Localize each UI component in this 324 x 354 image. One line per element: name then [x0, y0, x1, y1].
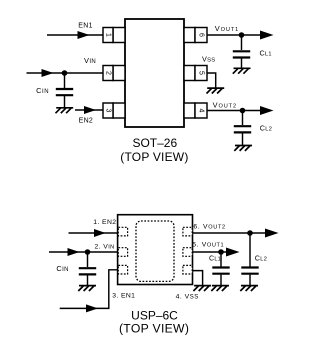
- wire CL2 to ground: [242, 133, 244, 145]
- node VOUT2 junction (USP): [247, 230, 253, 236]
- svg-text:EN2: EN2: [79, 118, 94, 125]
- node VOUT2 junction: [240, 108, 246, 114]
- pad pin 6: [183, 227, 192, 236]
- arrow EN1 pin3: [86, 304, 98, 312]
- wire EN2 input: [75, 109, 103, 111]
- svg-text:2. VIN: 2. VIN: [95, 244, 115, 251]
- svg-text:4. VSS: 4. VSS: [176, 293, 199, 300]
- svg-text:VIN: VIN: [84, 56, 96, 65]
- wire VIN to CIN (USP): [87, 252, 89, 267]
- svg-text:1: 1: [105, 33, 112, 37]
- svg-text:EN1: EN1: [78, 22, 93, 29]
- pin 6: [184, 28, 207, 43]
- capacitor CIN: [56, 89, 73, 95]
- arrow VOUT2: [260, 106, 274, 115]
- wire EN1 input (pin3): [60, 270, 118, 309]
- arrow EN2: [84, 106, 96, 114]
- svg-text:VOUT1: VOUT1: [215, 24, 239, 33]
- ground VSS (USP): [193, 286, 211, 291]
- wire VOUT2 to CL2: [242, 111, 244, 126]
- svg-text:1. EN2: 1. EN2: [93, 219, 116, 226]
- wire CL1 to ground: [241, 59, 243, 69]
- svg-text:(TOP VIEW): (TOP VIEW): [120, 150, 188, 164]
- op-amp U1 body SOT-26: [125, 19, 184, 127]
- ground VSS: [207, 88, 225, 93]
- pad pin 2: [118, 248, 127, 257]
- wire VOUT2 output: [207, 110, 261, 112]
- svg-text:2: 2: [105, 71, 112, 75]
- wire VOUT1 to CL1: [241, 35, 243, 50]
- wire CL1 to ground (USP): [220, 275, 222, 286]
- svg-text:USP–6C: USP–6C: [131, 309, 178, 323]
- pad pin 3: [118, 265, 127, 274]
- ground CL2 (USP): [240, 286, 258, 291]
- ground CIN (USP): [78, 286, 96, 291]
- pad pin 5: [183, 248, 192, 257]
- wire VOUT2 to CL2 (USP): [249, 233, 251, 267]
- arrow EN1: [78, 31, 90, 39]
- svg-text:4: 4: [198, 109, 205, 113]
- wire VOUT1 output: [207, 34, 261, 36]
- svg-text:CIN: CIN: [56, 264, 68, 273]
- node VIN junction: [62, 70, 68, 76]
- svg-text:CIN: CIN: [36, 86, 49, 95]
- wire VOUT1 to CL1 (USP): [220, 252, 222, 267]
- arrow VOUT1 pin5: [226, 248, 240, 257]
- arrow VOUT2 pin6: [265, 229, 279, 238]
- capacitor CL1: [233, 51, 250, 57]
- pin 1: [103, 28, 125, 43]
- op-amp U1 body USP-6C: [118, 215, 193, 285]
- capacitor CL1 (USP): [212, 268, 229, 274]
- svg-text:(TOP VIEW): (TOP VIEW): [119, 321, 189, 335]
- pin 5: [184, 66, 207, 81]
- pin 4: [184, 103, 207, 118]
- node VOUT1 junction (USP): [218, 249, 224, 255]
- svg-text:VOUT2: VOUT2: [213, 101, 237, 110]
- wire CIN to ground (USP): [87, 275, 89, 285]
- die pad outline (dashed): [136, 221, 174, 281]
- arrow VOUT1: [260, 31, 274, 40]
- svg-text:CL2: CL2: [255, 253, 267, 262]
- svg-text:VSS: VSS: [202, 55, 215, 64]
- arrow VIN pin2: [68, 248, 80, 256]
- wire VSS pin5: [207, 73, 216, 88]
- pad pin 4: [183, 265, 192, 274]
- wire EN2 input (pin1): [69, 232, 118, 234]
- pin 2: [103, 66, 125, 81]
- svg-text:SOT–26: SOT–26: [132, 136, 177, 150]
- wire VOUT2 output (pin6): [192, 232, 265, 234]
- svg-text:3. EN1: 3. EN1: [112, 293, 135, 300]
- capacitor CIN (USP): [79, 268, 96, 274]
- node VIN junction (USP): [85, 249, 91, 255]
- ground CL2: [234, 146, 252, 151]
- wire EN1 input: [47, 34, 103, 36]
- wire VOUT1 output (pin5): [192, 251, 226, 253]
- node VOUT1 junction: [239, 32, 245, 38]
- wire VSS (pin4): [192, 271, 202, 286]
- ground CIN: [55, 108, 73, 113]
- arrow VIN: [42, 69, 54, 77]
- wire VIN to CIN: [64, 73, 66, 88]
- svg-text:CL1: CL1: [209, 255, 221, 262]
- capacitor CL2: [234, 126, 251, 132]
- svg-text:5. VOUT1: 5. VOUT1: [192, 241, 224, 248]
- svg-text:CL1: CL1: [260, 48, 272, 57]
- svg-text:5: 5: [198, 71, 205, 75]
- wire CIN to ground: [64, 96, 66, 108]
- wire VIN input (pin2): [49, 251, 118, 253]
- capacitor CL2 (USP): [241, 268, 258, 274]
- svg-text:6: 6: [198, 33, 205, 37]
- ground CL1: [233, 68, 251, 73]
- svg-text:6. VOUT2: 6. VOUT2: [193, 223, 225, 230]
- arrow EN2 pin1: [94, 229, 106, 237]
- wire VIN input: [27, 72, 104, 74]
- pad pin 1: [118, 227, 127, 236]
- wire CL2 to ground (USP): [249, 275, 251, 286]
- ground CL1 (USP): [211, 286, 229, 291]
- svg-text:3: 3: [105, 109, 112, 113]
- pin 3: [103, 103, 125, 118]
- svg-text:CL2: CL2: [260, 123, 272, 132]
